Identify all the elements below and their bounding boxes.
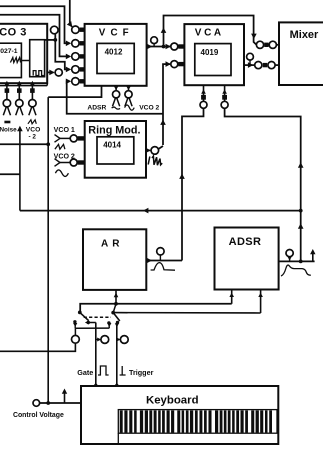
junction on tap stem [53,38,57,42]
svg-text:4019: 4019 [201,48,219,57]
sawtooth icon under VCO 1 [55,144,65,149]
sub-module 1027-1 (sawtooth core) inside VCO3 [0,43,21,77]
switch pivot 2 stem [113,304,116,313]
svg-text:Control Voltage: Control Voltage [13,412,64,419]
amplifier block VCA [184,24,244,85]
wire: ring-mod feed up into VCA input 2 [163,64,170,145]
node: gate jack circle L2 [101,336,109,344]
envelope block AR [83,229,146,290]
svg-text:4012: 4012 [105,48,123,57]
sawtooth wave icon [10,58,20,63]
node: control voltage source circle [33,400,40,407]
VCF control input stem at x=128.5: pin + knob [128,86,130,91]
VCF control input stem at x=116.1: pin + knob [115,86,117,91]
wire: CV riser up the left side [47,97,49,403]
wire: ring mod output up, left, into VCF input 5 [67,81,163,114]
wire: ring mod output to tap circle [146,149,150,151]
sine icon under VCF knob 2 [125,105,135,110]
wire: ADSR output [279,260,315,262]
gate pulse icon [98,366,109,375]
wire: tap circle down and into VCF input 4 [55,34,69,70]
junction: CV branch to off-image left [46,142,50,146]
svg-text:VCO: VCO [26,127,41,134]
junction: ADSR out meets VCA loop [299,260,303,264]
svg-text:VCO 2: VCO 2 [139,104,159,111]
oscillator block VCO3 [0,24,47,83]
ring-mod output burst icon [148,156,162,165]
svg-text:Trigger: Trigger [129,368,154,377]
svg-text:Ring Mod.: Ring Mod. [88,125,140,137]
wire: ADSR envelope loop into VCA control 2 [225,108,301,261]
envelope block ADSR [215,228,279,290]
square wave icon [33,71,44,76]
noise waveform icon (filled bar) [4,121,10,124]
mixer block [279,22,323,85]
ring modulator block [85,121,146,178]
node: VCF input pin 4 [72,66,79,73]
ADSR envelope icon [281,265,311,276]
junction: VCF out split [162,45,166,49]
mixer input row 2: circle, pin, circle [255,62,262,69]
wire: CV to keyboard [40,402,81,404]
wire: bus rises to VCO3 control [19,128,21,211]
wire: L1 down then left off-image [0,343,75,351]
wire: bypass up over VCA to mixer row 1 [164,16,257,47]
wire from 1027-1 to pulse shaper [21,60,29,62]
pulse shaper sub-box inside VCO3 [30,40,45,77]
up arrow at ADSR output end [312,251,314,261]
switch contact 2 marks [107,321,110,324]
svg-text:Mixer: Mixer [290,29,319,41]
sawtooth icon above VCO 2 label [28,120,36,124]
trigger spike icon [120,366,126,375]
svg-text:VCO 1: VCO 1 [54,126,75,134]
switch pivot 2 [111,311,115,315]
wire: gate rail to AR and ADSR [80,304,232,312]
contact rail under switch [75,327,109,329]
node: switch jack circle L1 [72,335,80,343]
junction: ADSR loop meets long mod bus [299,209,303,213]
wire: stub to off-image left [0,173,20,175]
up arrow on keyboard CV wire [64,391,66,404]
node: VCF input pin 3 [72,53,79,60]
knob circle on AR output [159,255,161,261]
node: VCA input 1 circle + pin [171,43,178,50]
chip 4014 inside Ring Mod [97,137,134,164]
svg-text:VCA: VCA [195,27,224,38]
ring mod input 2: feather, wire, circle, pin [55,159,61,167]
wire: ADSR gate input stem [231,290,233,304]
ring mod input 1: feather, wire, circle, pin [55,135,61,143]
wire: from off-image left into VCF input 2 [0,6,70,43]
dashed gang line between levers [84,316,111,318]
svg-text:ADSR: ADSR [229,236,262,248]
switch pivot 1 [78,311,82,315]
svg-text:Gate: Gate [77,368,93,377]
node: VCO3 sawtooth output tap circle [51,26,59,34]
wire: from top edge into VCF input 1 [70,0,72,27]
svg-text:027-1: 027-1 [0,48,18,55]
node: VCF input pin 2 [72,40,79,47]
node: VCF input pin 1 [72,26,79,33]
VCA control input stem 2: arrow, pin, circle [224,85,226,101]
trigger contact marks [116,321,119,324]
node: trigger jack circle L3 [120,336,128,344]
svg-text:CO 3: CO 3 [0,26,27,38]
knob circle on ADSR output [289,257,291,262]
sine icon under VCO 2 [55,170,68,177]
keyboard keys bars [118,410,277,434]
wire: VCF output [147,46,164,48]
wire: ADSR trigger input stem [260,290,262,313]
svg-text:- 2: - 2 [29,134,37,141]
knob circle on VCA output wire [249,60,251,65]
wire: VCO3 pulse-box top to tap stem junction [45,39,56,41]
svg-text:4014: 4014 [103,141,121,150]
VCA control input stem 1: arrow, pin, circle [203,85,205,101]
chip 4019 inside VCA [195,44,231,76]
junction: CV riser [46,401,50,405]
svg-text:A R: A R [101,238,120,249]
knob circle on VCF output wire [153,44,155,47]
wire: AR envelope into VCA control 1 [182,108,204,260]
wire: AR output to the right, then up [146,260,182,262]
wire: trigger line down to keyboard [116,323,118,387]
switch lever 2 [113,313,120,321]
svg-text:ADSR: ADSR [87,104,106,111]
wire: VCF out into VCA input 1 [164,46,171,48]
svg-text:Keyboard: Keyboard [146,394,199,406]
tap arrow into trigger jack circle [117,339,120,341]
wire: long horizontal modulation bus [20,210,301,212]
VCO3 control input stem 2: arrow, pin, knob circle [18,83,20,100]
wire: ring mod output rises to junction [158,146,163,149]
VCO3 control input stem 3: arrow, pin, knob circle [31,83,33,100]
wire: keyboard CV up into VCF bottom [48,86,101,97]
wire: from off-image left into VCF input 3 [0,15,70,57]
wire: extra bus line below VCO3 to off-image left [0,85,47,87]
wire: AR gate input stem [115,290,117,304]
junction: gate rail meets AR stem [114,302,118,306]
filter block VCF [85,24,147,86]
node: ring mod output circle [151,147,159,155]
node: VCA input 2 circle + pin [171,61,178,68]
chip 4012 inside VCF [97,43,134,73]
wire: trigger rail to ADSR [113,312,260,314]
switch lever 1 [80,312,89,320]
switch contact over L1 [73,320,76,323]
wire: VCO3 pulse output to tap circle B [47,71,53,73]
tap arrow into gate jack circle [96,339,100,341]
VCO3 control input stem 1: arrow, pin, knob circle [6,83,8,100]
mixer input row 1: circle, pin, circle [256,41,263,48]
svg-text:Noise: Noise [0,127,17,134]
keyboard block [81,386,278,444]
AR envelope icon [151,263,175,271]
node: VCF input pin 5 [72,78,79,85]
envelope icon under VCF knob 1 [112,107,121,109]
switch contact to gate line [87,321,90,324]
svg-text:V C F: V C F [99,27,130,38]
wire: gate line down to keyboard [95,323,97,387]
wire: VCA output to mixer row 2 [244,64,255,66]
node: VCO3 pulse output tap circle B [55,69,62,76]
